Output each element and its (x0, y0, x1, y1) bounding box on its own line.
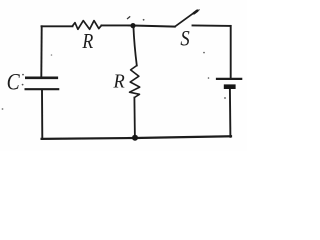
svg-text:R: R (113, 71, 125, 93)
svg-text:R: R (81, 31, 93, 54)
svg-text:C: C (7, 69, 21, 95)
svg-text:S: S (180, 27, 189, 51)
